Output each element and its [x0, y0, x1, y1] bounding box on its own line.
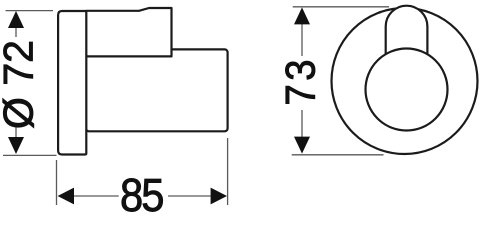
svg-text:Ø 72: Ø 72: [0, 40, 41, 129]
svg-text:73: 73: [278, 56, 324, 106]
svg-text:85: 85: [120, 170, 163, 216]
